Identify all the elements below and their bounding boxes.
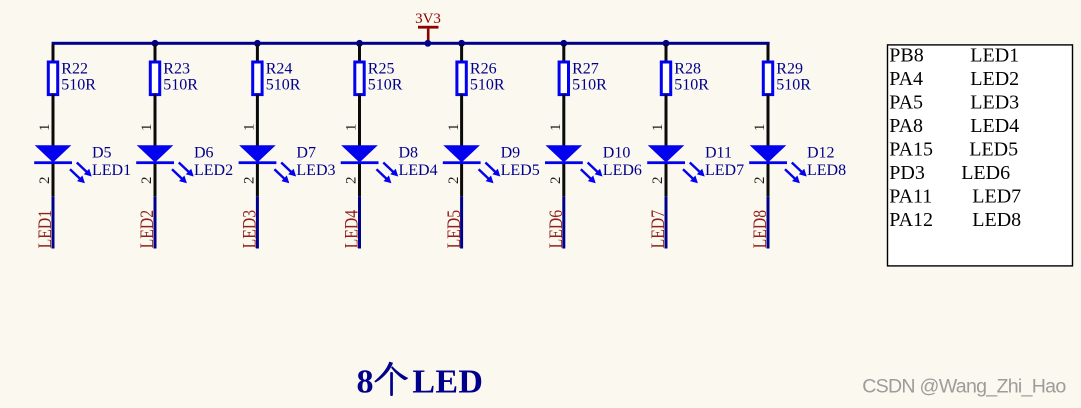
wire pin middle branch 2: [154, 95, 157, 147]
wire pin top branch 1: [52, 45, 55, 62]
svg-text:2: 2: [37, 176, 53, 184]
svg-text:LED8: LED8: [972, 209, 1021, 231]
resistor R29: [763, 62, 772, 95]
LED D7 cathode bar: [239, 161, 277, 164]
LED D6 cathode bar: [136, 161, 174, 164]
wire pin middle branch 5: [460, 95, 463, 147]
wire net LED3: [256, 196, 259, 248]
LED D7 emission arrow 1: [281, 163, 296, 177]
wire net LED1: [52, 196, 55, 248]
svg-text:R22: R22: [61, 61, 88, 78]
svg-text:LED3: LED3: [240, 210, 261, 249]
svg-text:D12: D12: [807, 145, 835, 162]
svg-text:LED6: LED6: [546, 210, 567, 249]
wire pin bottom branch 4: [358, 164, 361, 196]
svg-text:510R: 510R: [674, 76, 709, 93]
LED D8 emission arrow 2: [377, 169, 392, 183]
junction node branch 3: [254, 40, 261, 47]
svg-text:LED2: LED2: [137, 210, 158, 249]
LED D5 emission arrow 1: [77, 163, 92, 177]
svg-text:D9: D9: [501, 145, 521, 162]
wire pin bottom branch 7: [665, 164, 668, 196]
svg-text:LED5: LED5: [444, 210, 465, 249]
svg-text:D7: D7: [296, 145, 316, 162]
junction node branch 7: [663, 40, 670, 47]
svg-text:LED4: LED4: [342, 209, 363, 248]
svg-text:510R: 510R: [470, 76, 505, 93]
wire pin bottom branch 6: [562, 164, 565, 196]
svg-text:D8: D8: [399, 145, 419, 162]
svg-text:D11: D11: [705, 145, 732, 162]
wire net LED8: [767, 196, 770, 248]
wire net LED4: [358, 196, 361, 248]
LED D9 emission arrow 1: [485, 163, 500, 177]
svg-text:2: 2: [139, 176, 155, 184]
wire net LED7: [665, 196, 668, 248]
svg-text:3V3: 3V3: [415, 11, 441, 27]
LED D9 triangle: [443, 145, 480, 162]
svg-text:LED7: LED7: [705, 162, 744, 179]
svg-text:R27: R27: [572, 61, 599, 78]
svg-text:LED2: LED2: [970, 68, 1019, 90]
junction node branch 6: [560, 40, 567, 47]
svg-text:LED5: LED5: [501, 162, 540, 179]
wire pin bottom branch 1: [52, 164, 55, 196]
LED D10 cathode bar: [545, 161, 583, 164]
svg-text:LED7: LED7: [648, 210, 669, 249]
svg-text:LED1: LED1: [970, 45, 1019, 67]
LED D6 triangle: [137, 145, 174, 162]
svg-text:D10: D10: [603, 145, 631, 162]
resistor R24: [253, 62, 262, 95]
svg-text:1: 1: [139, 124, 155, 132]
LED D8 triangle: [341, 145, 378, 162]
svg-text:LED4: LED4: [399, 162, 438, 179]
wire pin middle branch 1: [52, 95, 55, 147]
LED D5 cathode bar: [34, 161, 72, 164]
LED D12 triangle: [750, 145, 787, 162]
wire pin bottom branch 3: [256, 164, 259, 196]
wire pin top branch 8: [767, 45, 770, 62]
wire pin middle branch 6: [562, 95, 565, 147]
wire pin top branch 3: [256, 45, 259, 62]
svg-text:LED8: LED8: [807, 162, 846, 179]
junction dot power: [424, 40, 431, 47]
svg-text:LED3: LED3: [296, 162, 335, 179]
LED D7 triangle: [239, 145, 276, 162]
svg-text:2: 2: [344, 176, 360, 184]
svg-text:1: 1: [344, 124, 360, 132]
wire pin middle branch 4: [358, 95, 361, 147]
svg-text:R25: R25: [368, 61, 395, 78]
table pin assignment box: [888, 45, 1073, 266]
svg-text:2: 2: [650, 176, 666, 184]
svg-text:510R: 510R: [163, 76, 198, 93]
LED D12 cathode bar: [749, 161, 787, 164]
svg-text:CSDN @Wang_Zhi_Hao: CSDN @Wang_Zhi_Hao: [862, 376, 1066, 398]
svg-text:510R: 510R: [61, 76, 96, 93]
LED D10 triangle: [546, 145, 583, 162]
junction node branch 5: [458, 40, 465, 47]
svg-text:R23: R23: [163, 61, 190, 78]
LED D9 cathode bar: [443, 161, 481, 164]
svg-text:1: 1: [37, 124, 53, 132]
svg-text:PA15: PA15: [889, 139, 933, 161]
LED D5 emission arrow 2: [70, 169, 85, 183]
svg-text:1: 1: [242, 124, 258, 132]
svg-text:LED5: LED5: [969, 139, 1018, 161]
wire pin top branch 4: [358, 45, 361, 62]
svg-text:PA4: PA4: [889, 68, 923, 90]
LED D7 emission arrow 2: [274, 169, 289, 183]
junction node branch 4: [356, 40, 363, 47]
wire pin middle branch 3: [256, 95, 259, 147]
svg-text:R24: R24: [266, 61, 293, 78]
svg-text:PA12: PA12: [889, 209, 933, 231]
LED D11 emission arrow 2: [683, 169, 698, 183]
LED D11 cathode bar: [647, 161, 685, 164]
LED D11 emission arrow 1: [690, 163, 705, 177]
svg-text:LED6: LED6: [961, 162, 1010, 184]
svg-text:510R: 510R: [776, 76, 811, 93]
svg-text:LED1: LED1: [92, 162, 131, 179]
LED D12 emission arrow 2: [785, 169, 800, 183]
svg-text:510R: 510R: [368, 76, 403, 93]
junction node branch 2: [152, 40, 159, 47]
svg-text:1: 1: [548, 124, 564, 132]
svg-text:LED8: LED8: [750, 210, 771, 249]
resistor R28: [661, 62, 670, 95]
wire 3V3 bus: [52, 42, 770, 45]
LED D9 emission arrow 2: [479, 169, 494, 183]
wire pin top branch 5: [460, 45, 463, 62]
wire pin middle branch 8: [767, 95, 770, 147]
LED D5 triangle: [35, 145, 72, 162]
svg-text:LED4: LED4: [970, 115, 1019, 137]
svg-text:LED6: LED6: [603, 162, 642, 179]
svg-text:D5: D5: [92, 145, 112, 162]
svg-text:LED: LED: [412, 363, 483, 400]
resistor R23: [150, 62, 159, 95]
svg-text:PD3: PD3: [889, 162, 925, 184]
power 3V3 bar: [418, 26, 439, 29]
resistor R27: [559, 62, 568, 95]
svg-text:R28: R28: [674, 61, 701, 78]
LED D11 triangle: [648, 145, 685, 162]
power 3V3 stem: [427, 29, 430, 43]
svg-text:LED1: LED1: [35, 210, 56, 249]
svg-text:PA11: PA11: [889, 186, 932, 208]
wire net LED5: [460, 196, 463, 248]
svg-text:PA5: PA5: [889, 92, 923, 114]
svg-text:2: 2: [548, 176, 564, 184]
svg-text:PB8: PB8: [889, 45, 923, 67]
wire pin bottom branch 5: [460, 164, 463, 196]
svg-text:510R: 510R: [572, 76, 607, 93]
wire pin top branch 2: [154, 45, 157, 62]
wire pin middle branch 7: [665, 95, 668, 147]
title glyph 个: [374, 362, 408, 396]
LED D8 emission arrow 1: [383, 163, 398, 177]
svg-text:1: 1: [752, 124, 768, 132]
svg-text:LED3: LED3: [970, 92, 1019, 114]
wire pin top branch 7: [665, 45, 668, 62]
resistor R25: [355, 62, 364, 95]
LED D12 emission arrow 1: [792, 163, 807, 177]
svg-text:8: 8: [357, 363, 374, 400]
wire pin top branch 6: [562, 45, 565, 62]
svg-text:R29: R29: [776, 61, 803, 78]
svg-text:1: 1: [650, 124, 666, 132]
svg-text:LED7: LED7: [972, 186, 1021, 208]
svg-text:2: 2: [752, 176, 768, 184]
LED D8 cathode bar: [341, 161, 379, 164]
LED D10 emission arrow 2: [581, 169, 596, 183]
LED D6 emission arrow 1: [179, 163, 194, 177]
resistor R26: [457, 62, 466, 95]
resistor R22: [48, 62, 57, 95]
LED D6 emission arrow 2: [172, 169, 187, 183]
wire pin bottom branch 2: [154, 164, 157, 196]
svg-text:1: 1: [446, 124, 462, 132]
svg-text:PA8: PA8: [889, 115, 923, 137]
svg-text:2: 2: [446, 176, 462, 184]
LED D10 emission arrow 1: [588, 163, 603, 177]
svg-text:LED2: LED2: [194, 162, 233, 179]
wire net LED6: [562, 196, 565, 248]
svg-text:510R: 510R: [266, 76, 301, 93]
svg-text:D6: D6: [194, 145, 214, 162]
svg-text:2: 2: [242, 176, 258, 184]
wire net LED2: [154, 196, 157, 248]
svg-text:R26: R26: [470, 61, 497, 78]
wire pin bottom branch 8: [767, 164, 770, 196]
